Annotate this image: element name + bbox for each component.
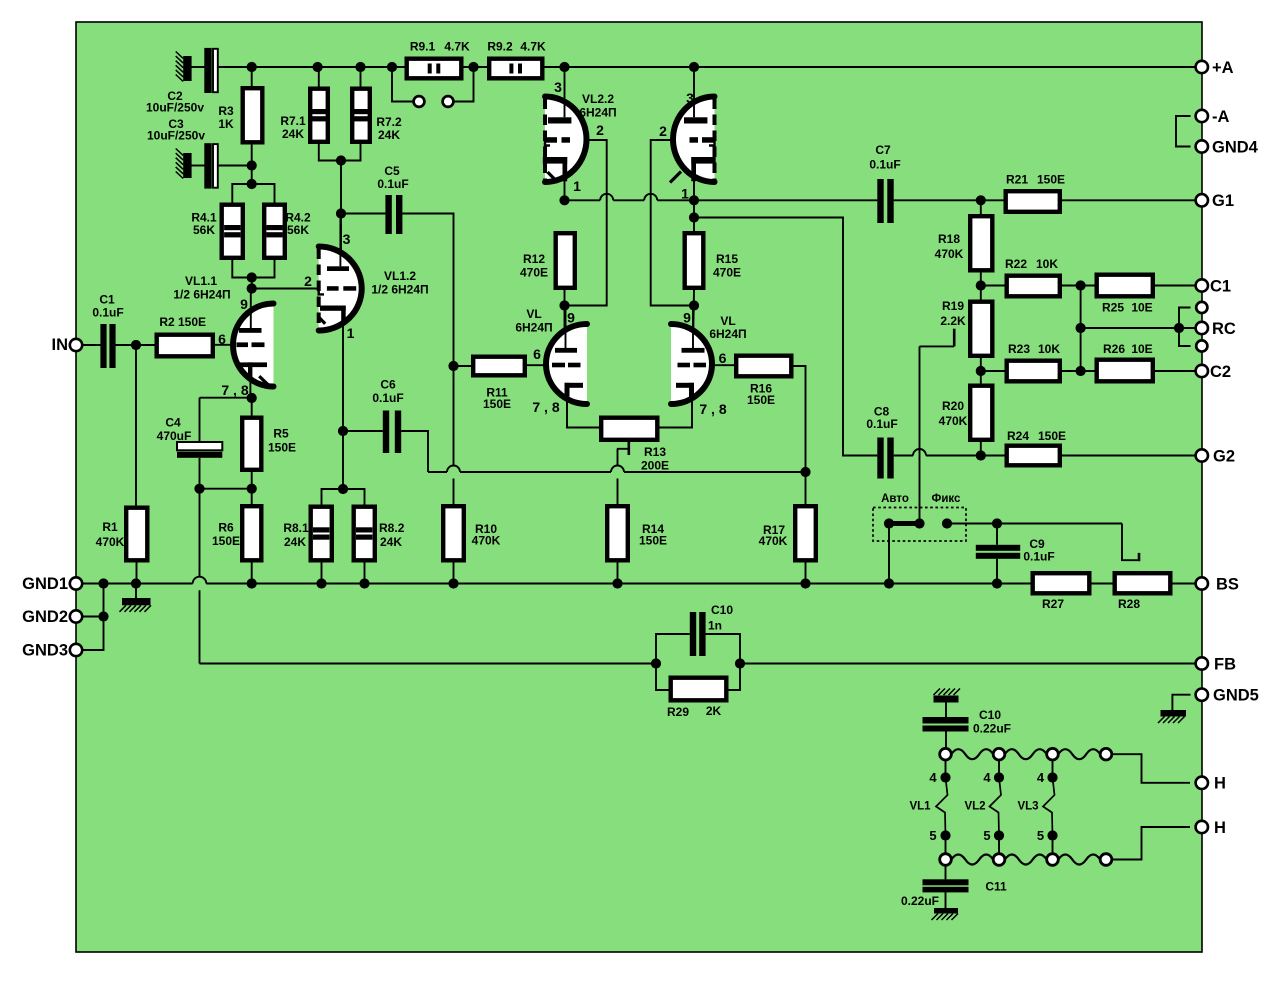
heater top rail waves (951, 749, 1100, 759)
svg-text:470K: 470K (472, 534, 501, 548)
svg-text:10E: 10E (1131, 342, 1152, 356)
svg-text:IN: IN (52, 336, 69, 354)
svg-text:7 , 8: 7 , 8 (221, 382, 248, 398)
resistor R16 150E (736, 356, 791, 377)
pin label VL2.2b-3 (686, 90, 694, 106)
svg-text:C4: C4 (165, 416, 181, 430)
wire R8.2 bottom (364, 563, 366, 584)
svg-text:VL2.2: VL2.2 (582, 92, 614, 106)
svg-text:10uF/250v: 10uF/250v (147, 129, 205, 143)
wire R22-R25 link (1062, 285, 1095, 287)
junction dot VL1.1 cathode (247, 393, 257, 403)
wire heater bottom to H (1112, 827, 1190, 860)
resistor R1 470K (126, 508, 147, 561)
svg-text:3: 3 (686, 90, 694, 106)
junction dot R7 merge (336, 155, 346, 218)
resistor R14 150E (607, 506, 628, 560)
svg-text:4.7K: 4.7K (444, 40, 470, 54)
wire VL2.2b grid (pin 2) (651, 140, 694, 306)
svg-text:R9.2: R9.2 (487, 40, 513, 54)
resistor R5 150E (242, 418, 261, 470)
label R23 (1008, 342, 1060, 356)
pin labels 5 (929, 828, 1044, 843)
wire VL2.2a grid (pin 2) (565, 140, 607, 306)
pin label VL2.2a-3 (554, 79, 562, 95)
ground symbol GND5 (1158, 710, 1186, 723)
pin label VLa-7,8 (532, 399, 559, 415)
label C10 heater (973, 708, 1011, 736)
svg-text:6Н24П: 6Н24П (579, 106, 616, 120)
label R25 (1102, 301, 1153, 315)
potentiometer R28 wiper (1122, 524, 1139, 562)
capacitor C9 (0.1uF) (976, 545, 1020, 559)
wire C2 stub (192, 66, 205, 68)
wire C1-C2 column (1080, 286, 1082, 372)
terminal FB (1196, 655, 1236, 673)
svg-text:2: 2 (596, 122, 604, 138)
triode VL2.2a envelope (545, 97, 586, 183)
wire R24 to G2 terminal (981, 455, 1196, 457)
svg-text:GND3: GND3 (22, 641, 68, 659)
wire GND3 link (83, 584, 104, 651)
svg-text:470E: 470E (520, 266, 548, 280)
svg-text:150E: 150E (639, 534, 667, 548)
triode VL2.2a grid dashes (545, 137, 571, 143)
resistor R3 1K (243, 88, 263, 142)
capacitor C10 (1n) (690, 612, 706, 656)
capacitor C3 ground (176, 149, 192, 179)
terminal H upper (1196, 775, 1226, 793)
triode VL (left) plate (pin 9) (555, 306, 577, 353)
resistor R4.1 56K (222, 205, 243, 258)
junction dot VL2.2 cathodes (559, 195, 699, 222)
pin labels 4 (929, 770, 1045, 785)
wire switch Fix contact to C9 node (947, 523, 1122, 525)
switch box (dotted) (873, 508, 966, 542)
pin label VLa-6 (533, 346, 541, 362)
label C4 (157, 416, 192, 444)
label C3 (147, 117, 205, 143)
triode VL2.2b envelope (673, 97, 715, 183)
resistor R20 470K (970, 386, 992, 440)
svg-text:0.1uF: 0.1uF (1023, 550, 1054, 564)
heater VL1 element (936, 760, 948, 854)
resistor R27 (1033, 573, 1090, 593)
switch contact S1a (414, 96, 425, 107)
potentiometer R19 2.2K (970, 302, 992, 356)
wire node to R1 (135, 345, 137, 506)
resistor R8.1 24K (311, 507, 332, 561)
terminal IN (52, 336, 83, 354)
svg-text:10K: 10K (1038, 342, 1060, 356)
wire R27-R28 link (1092, 583, 1113, 585)
svg-text:R3: R3 (218, 104, 234, 118)
pin label VL1.2-3 (343, 231, 351, 247)
heater pin 5 dots (940, 830, 1057, 840)
svg-text:VL1.1: VL1.1 (185, 274, 217, 288)
resistor R25 10E (1097, 275, 1153, 297)
triode VL2.2a plate (pin 3) (548, 67, 571, 124)
junction dots R18 column (976, 195, 986, 460)
junction dots C1/C2 column (1076, 280, 1185, 376)
wire FB line left (200, 663, 657, 665)
label R13 (641, 445, 669, 473)
terminal GND5 (1196, 687, 1259, 705)
wire C7 right to R18 node (894, 199, 1004, 201)
resistor R26 10E (1097, 360, 1153, 382)
svg-text:R21: R21 (1006, 173, 1028, 187)
wire C3 stub (192, 165, 252, 167)
label R12 (520, 252, 548, 280)
junction dot C6 node (338, 426, 348, 494)
pin label VL2.2b-2 (659, 123, 667, 139)
svg-text:FB: FB (1214, 655, 1236, 673)
wire +A rail (219, 66, 1197, 68)
svg-text:GND4: GND4 (1212, 138, 1259, 156)
label R5 (268, 427, 296, 455)
label R27 (1042, 597, 1064, 611)
label VL1 heater (909, 801, 931, 813)
resistor R4.2 56K (264, 205, 285, 258)
svg-text:G1: G1 (1212, 192, 1234, 210)
wire VL2.2a cathode lead (564, 181, 566, 200)
hops C6 wire over R10/R14 lines (447, 466, 624, 473)
svg-text:VL: VL (526, 307, 541, 321)
svg-text:+A: +A (1212, 59, 1234, 77)
wire R1 bottom (136, 562, 138, 584)
label R16 (747, 382, 775, 408)
wire R26 to C2 terminal (1155, 370, 1196, 372)
triode VL (left) grid dashes (552, 363, 581, 368)
triode VL (left) cathode (pins 7,8) (565, 383, 584, 397)
label C1 (92, 293, 123, 320)
potentiometer R13 200E (601, 418, 657, 440)
heater node circles top (940, 748, 1112, 760)
resistor R9.1 4.7K (407, 59, 462, 79)
wire R16 to R17 node (794, 366, 806, 504)
hop G2 wire over R19 wiper (913, 449, 926, 455)
svg-text:Авто: Авто (881, 493, 909, 505)
terminal GND3 (22, 641, 82, 659)
label R9.2 (487, 40, 546, 54)
node RC lower contact (1196, 340, 1207, 351)
triode VL (left) envelope (546, 324, 587, 404)
svg-text:R6: R6 (218, 521, 234, 535)
resistor R7.2 24K (352, 89, 370, 142)
svg-text:C10: C10 (711, 603, 733, 617)
wire R3 bottom to C3 node (251, 145, 253, 185)
wire pin1 node to C8 (694, 218, 877, 456)
pin label VLb-6 (719, 350, 727, 366)
triode VL1.2 cathode (pin 1) (318, 306, 346, 324)
resistor R24 150E (1007, 446, 1060, 466)
label R19 (940, 299, 966, 328)
label VL right (709, 314, 746, 341)
label R9.1 (410, 40, 470, 54)
svg-text:200E: 200E (641, 459, 669, 473)
triode VL1.1 cathode (pins 7,8) (240, 362, 271, 386)
wire R5 bottom / R6 top (200, 472, 252, 504)
label VL1.1 (173, 274, 230, 302)
junction dot R16/R17 node (800, 467, 810, 477)
resistor R11 150E (473, 357, 525, 376)
label R14 (639, 522, 667, 548)
svg-text:VL: VL (720, 314, 735, 328)
wire R15 bottom to VL plate (693, 290, 694, 348)
svg-text:150E: 150E (1037, 173, 1065, 187)
svg-text:C7: C7 (875, 143, 891, 157)
svg-text:4: 4 (983, 770, 991, 785)
svg-text:150E: 150E (483, 397, 511, 411)
terminal C1 (1196, 277, 1231, 295)
label R10 (472, 522, 501, 548)
wire R22 left lead (981, 285, 1005, 287)
svg-text:6Н24П: 6Н24П (709, 327, 746, 341)
svg-text:R24: R24 (1007, 429, 1029, 443)
capacitor C1 (0.1uF) (100, 324, 115, 368)
triode VL2.2b cathode (pin 1) (670, 157, 716, 183)
pin label VL1.1-9 (240, 296, 248, 312)
svg-text:24K: 24K (282, 127, 304, 141)
svg-text:GND1: GND1 (22, 575, 68, 593)
wire C8 to G2 node (894, 455, 981, 457)
capacitor C3 (10uF/250v) (204, 143, 218, 188)
svg-text:R29: R29 (667, 705, 689, 719)
label R22 (1005, 257, 1058, 271)
potentiometer R28 (1115, 573, 1171, 593)
label C8 (866, 405, 897, 432)
svg-text:6Н24П: 6Н24П (515, 321, 552, 335)
label R7.1 (280, 114, 306, 141)
svg-text:2K: 2K (706, 704, 722, 718)
svg-text:150E: 150E (1038, 429, 1066, 443)
svg-text:C6: C6 (380, 378, 396, 392)
ground symbol above C10 (934, 689, 961, 703)
svg-text:0.22uF: 0.22uF (901, 894, 939, 908)
svg-text:1: 1 (681, 185, 689, 201)
svg-text:150E: 150E (268, 441, 296, 455)
wire R17 bottom (805, 563, 807, 584)
svg-text:R28: R28 (1118, 597, 1140, 611)
wire C6 left lead (343, 430, 383, 432)
capacitor C11 (0.22uF) (923, 865, 969, 908)
wire R18 top lead (980, 200, 982, 214)
resistor R2 150E (157, 335, 213, 357)
wire RC bracket (1179, 308, 1191, 347)
svg-text:56K: 56K (287, 223, 309, 237)
svg-text:C11: C11 (985, 880, 1007, 894)
svg-text:R9.1: R9.1 (410, 40, 436, 54)
resistor R17 470K (795, 506, 816, 560)
label C11 (901, 880, 1007, 909)
resistor R22 10K (1007, 276, 1060, 297)
triode VL (right) envelope (671, 324, 712, 404)
svg-text:-A: -A (1212, 108, 1229, 126)
label R21 (1006, 173, 1065, 187)
svg-text:150E: 150E (747, 393, 775, 407)
resistor R15 470E (685, 233, 704, 288)
resistor R7.1 24K (310, 89, 328, 142)
wire R2 to VL1.1 grid (pin 6) (213, 344, 237, 346)
wire node VL1.1 plate (251, 278, 253, 291)
svg-text:470K: 470K (759, 534, 788, 548)
pin label VL2.2a-2 (596, 122, 604, 138)
hop G1 line over pin2 wires (600, 194, 657, 201)
resistor R8.2 24K (354, 507, 375, 561)
label R4.2 (285, 211, 311, 238)
heater VL2 element (990, 760, 1002, 854)
resistor R23 10K (1007, 361, 1060, 382)
svg-text:3: 3 (554, 79, 562, 95)
svg-text:R23: R23 (1008, 342, 1030, 356)
svg-text:H: H (1214, 775, 1226, 793)
label C6 (372, 378, 403, 406)
svg-text:G2: G2 (1213, 447, 1235, 465)
svg-text:24K: 24K (378, 128, 400, 142)
junction dot C3 node (247, 160, 257, 189)
label R1 (96, 520, 125, 549)
capacitor C5 (0.1uF) (385, 195, 402, 234)
label C10 1n (708, 603, 733, 633)
wire GND bus (83, 583, 1031, 585)
wire GND2 link (83, 616, 104, 618)
wire RC line (1081, 327, 1196, 329)
capacitor C2 ground (176, 52, 192, 82)
svg-text:470uF: 470uF (157, 429, 192, 443)
terminal GND1 (22, 575, 82, 593)
potentiometer R13 wiper (617, 442, 629, 504)
label switch (881, 493, 961, 505)
svg-text:470K: 470K (96, 535, 125, 549)
resistor R29 2K (671, 678, 727, 701)
wire heater top to H (1112, 754, 1190, 783)
svg-text:2: 2 (659, 123, 667, 139)
svg-text:R20: R20 (942, 399, 964, 413)
capacitor C2 (10uF/250v) (204, 48, 218, 93)
wire R8.1 bottom (321, 563, 323, 584)
label C5 (377, 164, 408, 191)
heater VL3 element (1043, 760, 1055, 854)
wire VL1.2 grid (pin 2) (252, 288, 318, 290)
svg-text:VL2: VL2 (964, 801, 985, 813)
capacitor C7 (0.1uF) (877, 179, 893, 223)
svg-text:150E: 150E (178, 315, 206, 329)
svg-text:7 , 8: 7 , 8 (699, 401, 726, 417)
junction dots GND bus (98, 578, 1002, 621)
svg-text:1K: 1K (218, 117, 234, 131)
svg-text:5: 5 (929, 828, 936, 843)
wire GND5 ground (1172, 695, 1190, 710)
label R2 (159, 315, 206, 329)
label R11 (483, 386, 511, 412)
svg-text:R19: R19 (942, 299, 964, 313)
label VL1.2 (371, 269, 428, 297)
wire R21 to G1 terminal (1062, 199, 1196, 201)
svg-text:R8.2: R8.2 (379, 521, 405, 535)
svg-text:Фикс: Фикс (932, 493, 961, 505)
wire C6 right to R16 node (401, 431, 805, 472)
wire R10 bottom (453, 563, 455, 584)
svg-text:VL1.2: VL1.2 (384, 269, 416, 283)
label C2 (146, 89, 204, 115)
switch closed bar (889, 521, 920, 526)
svg-text:VL3: VL3 (1017, 801, 1038, 813)
svg-text:R13: R13 (644, 445, 666, 459)
triode VL2.2a grid hook (545, 139, 550, 146)
svg-text:C5: C5 (384, 164, 400, 178)
svg-text:6: 6 (719, 350, 727, 366)
wire R7 merge to VL1.2 pin 3 (340, 161, 342, 267)
wire R6 bottom (251, 563, 253, 584)
wire R15 top lead (693, 200, 695, 231)
svg-text:1: 1 (573, 178, 581, 194)
svg-text:GND5: GND5 (1213, 687, 1259, 705)
terminal G2 (1196, 447, 1235, 465)
svg-text:6: 6 (533, 346, 541, 362)
svg-text:R26: R26 (1103, 342, 1125, 356)
pin label VL1.2-2 (304, 273, 312, 289)
svg-text:4: 4 (1037, 770, 1045, 785)
ground symbol at bus (120, 584, 152, 612)
svg-text:24K: 24K (380, 535, 402, 549)
terminal GND4 (1196, 138, 1259, 156)
triode VL2.2a cathode (pin 1) (543, 157, 567, 183)
junction dots switch (884, 518, 1002, 528)
label R6 (212, 521, 240, 549)
label C9 (1023, 537, 1054, 564)
svg-text:150E: 150E (212, 534, 240, 548)
svg-text:C10: C10 (979, 708, 1001, 722)
terminal GND2 (22, 608, 82, 626)
heater node circles bottom (940, 854, 1112, 866)
heater bottom rail waves (951, 855, 1100, 865)
pin label VL1.1-7,8 (221, 382, 248, 398)
capacitor C4 (470uF) (177, 442, 222, 458)
triode VL1.2 plate (pin 3) (327, 216, 349, 271)
capacitor C6 (0.1uF) (383, 411, 401, 454)
svg-text:R25: R25 (1102, 301, 1124, 315)
label R28 (1118, 597, 1140, 611)
wire IN to C1 (83, 344, 101, 346)
svg-text:3: 3 (343, 231, 351, 247)
svg-text:C1: C1 (99, 293, 115, 307)
wire R3 top lead (251, 67, 253, 86)
capacitor C8 (0.1uF) (877, 438, 893, 479)
triode VL1.1 grid dashes (237, 342, 265, 347)
triode VL2.2b grid dashes (690, 137, 715, 143)
resistor R10 470K (443, 506, 464, 560)
svg-text:R7.2: R7.2 (376, 115, 402, 129)
svg-text:470E: 470E (713, 266, 741, 280)
svg-text:0.1uF: 0.1uF (372, 391, 403, 405)
label R8.2 (379, 521, 405, 549)
wire R11 left lead (454, 365, 472, 367)
label VL2 heater (964, 801, 985, 813)
triode VL1.1 envelope (233, 304, 273, 387)
svg-text:5: 5 (983, 828, 990, 843)
wire R7.2 leads (341, 67, 361, 161)
svg-text:10uF/250v: 10uF/250v (146, 101, 204, 115)
svg-text:R27: R27 (1042, 597, 1064, 611)
wire R25 to C1 terminal (1155, 285, 1196, 287)
svg-text:0.1uF: 0.1uF (866, 417, 897, 431)
wire R4 split (232, 184, 274, 203)
wire VL1.1 cathode node (250, 377, 251, 416)
junction dots +A rail (247, 62, 700, 72)
wire R14 bottom (617, 563, 619, 584)
svg-text:GND2: GND2 (22, 608, 68, 626)
svg-text:R1: R1 (102, 520, 118, 534)
